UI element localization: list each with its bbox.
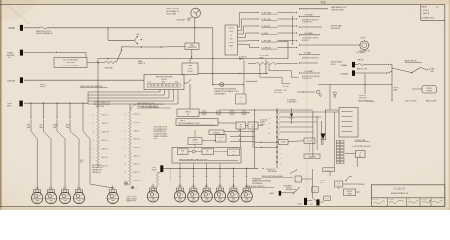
svg-text:TIME: TIME — [178, 198, 181, 200]
svg-text:CLOCK TIME UNIT ON: CLOCK TIME UNIT ON — [154, 127, 168, 129]
svg-text:CLOCK: CLOCK — [187, 71, 192, 73]
svg-text:V24GM: V24GM — [7, 81, 15, 83]
svg-text:TIM: TIM — [129, 183, 131, 185]
svg-text:4 SEC: 4 SEC — [325, 198, 328, 200]
svg-text:SET HI: SET HI — [320, 182, 325, 184]
svg-text:CLOCK: CLOCK — [307, 141, 312, 143]
svg-text:CLK 2: CLK 2 — [63, 202, 67, 204]
svg-text:23.4 %: 23.4 % — [134, 164, 140, 166]
svg-text:MTR D: MTR D — [361, 37, 367, 39]
svg-text:CLOCK: CLOCK — [161, 79, 167, 81]
svg-text:CLK 2: CLK 2 — [49, 202, 53, 204]
svg-text:TIME: TIME — [53, 127, 56, 129]
svg-text:GRN: GRN — [268, 132, 271, 134]
svg-text:76.1 %: 76.1 % — [102, 123, 108, 125]
svg-text:METTH DEGRADE CLOCK: METTH DEGRADE CLOCK — [179, 122, 201, 125]
svg-text:PAGE: PAGE — [422, 5, 428, 8]
svg-text:4: 4 — [93, 123, 94, 125]
svg-text:SPACECRAFT 20: SPACECRAFT 20 — [391, 192, 409, 195]
svg-text:CLOCK LIGHT: CLOCK LIGHT — [260, 55, 270, 57]
svg-text:CLOCKS SHUT C THE OTC: CLOCKS SHUT C THE OTC — [302, 38, 319, 40]
svg-text:LIGHTING BOLT C TIME LIKE: LIGHTING BOLT C TIME LIKE — [302, 76, 320, 78]
svg-text:CLK: CLK — [207, 153, 210, 155]
svg-text:EVERY POINT: EVERY POINT — [127, 201, 136, 203]
svg-text:TIME: TIME — [151, 198, 154, 200]
svg-text:GRN: GRN — [238, 130, 241, 132]
svg-text:CLK 2: CLK 2 — [77, 202, 81, 204]
svg-text:64.3 %: 64.3 % — [134, 139, 140, 141]
svg-text:ELEC TIME: ELEC TIME — [167, 14, 177, 16]
svg-text:TIME SET: TIME SET — [39, 84, 46, 86]
svg-text:4: 4 — [125, 155, 126, 157]
svg-text:P (FWD): P (FWD) — [238, 97, 243, 99]
svg-text:24.7 %: 24.7 % — [102, 165, 108, 167]
svg-text:TIME: TIME — [205, 198, 208, 200]
svg-text:CLK 2: CLK 2 — [205, 201, 209, 203]
svg-text:V(S)GM: V(S)GM — [340, 74, 348, 76]
svg-text:TIME SER: TIME SER — [357, 60, 363, 62]
svg-text:GRN: GRN — [238, 140, 241, 142]
svg-text:TIME: TIME — [218, 198, 221, 200]
svg-text:CLOCK TIM: CLOCK TIM — [260, 119, 268, 121]
svg-text:TIME ZONE: TIME ZONE — [105, 67, 113, 69]
svg-text:REV A: REV A — [423, 12, 430, 15]
svg-text:THE ODD WILL: THE ODD WILL — [127, 196, 137, 198]
svg-text:63.4 %: 63.4 % — [134, 155, 140, 157]
svg-text:TIME/BODY IN: TIME/BODY IN — [92, 170, 102, 172]
svg-text:67.0 %: 67.0 % — [134, 122, 140, 124]
svg-text:4: 4 — [93, 157, 94, 159]
svg-text:FOR: FOR — [230, 38, 233, 40]
svg-text:TIME: TIME — [35, 200, 38, 202]
svg-text:RED: RED — [268, 122, 271, 124]
svg-text:FUS: FUS — [135, 187, 138, 189]
svg-text:TIME: TIME — [192, 198, 195, 200]
svg-text:V24B: V24B — [7, 52, 13, 54]
svg-text:MOMENT OF RESET BY: MOMENT OF RESET BY — [154, 136, 169, 138]
svg-text:8:04 GMT: 8:04 GMT — [177, 19, 186, 21]
svg-text:4: 4 — [93, 131, 94, 133]
svg-text:4: 4 — [93, 114, 94, 116]
svg-text:4: 4 — [125, 172, 126, 174]
svg-text:MIN: MIN — [314, 191, 316, 193]
svg-text:TIME: TIME — [77, 200, 80, 202]
svg-text:V24GT: V24GT — [297, 204, 301, 206]
svg-text:CLK 2: CLK 2 — [245, 201, 249, 203]
svg-text:MONITOR: MONITOR — [213, 132, 220, 134]
svg-text:RETRO: RETRO — [394, 87, 399, 89]
svg-text:TIME: TIME — [63, 200, 66, 202]
svg-text:T+10 SEC: T+10 SEC — [282, 86, 290, 88]
svg-text:GRN: GRN — [268, 117, 271, 119]
svg-text:WORTH: WORTH — [426, 91, 431, 93]
svg-text:WILL RUN IF TWO CLOCK: WILL RUN IF TWO CLOCK — [94, 104, 110, 106]
svg-text:TIM: TIM — [80, 162, 82, 164]
svg-text:4: 4 — [93, 148, 94, 150]
svg-text:TIME: TIME — [111, 200, 114, 202]
svg-text:LOGIC: LOGIC — [229, 31, 233, 33]
svg-text:CHOOSER: CHOOSER — [192, 142, 198, 144]
svg-text:CLOCK: CLOCK — [219, 140, 223, 142]
svg-text:DIST: DIST — [188, 68, 192, 70]
svg-text:TIME: TIME — [39, 127, 42, 129]
svg-text:TIME: TIME — [245, 198, 248, 200]
svg-text:CHECKED: CHECKED — [389, 199, 395, 201]
svg-text:MTR D: MTR D — [185, 111, 191, 113]
svg-text:CLK 2: CLK 2 — [191, 201, 195, 203]
svg-text:4: 4 — [125, 130, 126, 132]
svg-text:RUN: RUN — [181, 150, 184, 152]
svg-text:TIM: TIM — [182, 153, 184, 155]
svg-text:63.1 %: 63.1 % — [134, 172, 140, 174]
svg-text:CLK 2: CLK 2 — [35, 202, 39, 204]
svg-text:FCH-1: FCH-1 — [423, 10, 430, 12]
svg-text:TIME: TIME — [66, 127, 69, 129]
svg-text:21.1 %: 21.1 % — [134, 180, 140, 182]
svg-text:4: 4 — [125, 147, 126, 149]
svg-text:TIME: TIME — [239, 124, 242, 126]
svg-text:TIME: TIME — [49, 200, 52, 202]
svg-text:PULSE: PULSE — [152, 170, 157, 172]
svg-text:GMT CLOCK: GMT CLOCK — [167, 8, 180, 10]
svg-text:THE TIME CHOOSER: THE TIME CHOOSER — [156, 76, 174, 78]
svg-text:RETRO: RETRO — [427, 88, 433, 90]
svg-text:63.4 %: 63.4 % — [102, 140, 108, 142]
svg-text:THE OTC: THE OTC — [320, 179, 326, 181]
svg-text:YEL: YEL — [238, 135, 241, 137]
svg-text:RECOIL RLY: RECOIL RLY — [359, 97, 367, 99]
svg-text:CLK 2: CLK 2 — [111, 202, 115, 204]
svg-text:TIME: TIME — [232, 198, 235, 200]
svg-text:159.5 %: 159.5 % — [102, 131, 110, 133]
svg-text:ACCURATE TO: ACCURATE TO — [167, 10, 180, 13]
svg-text:RUN: RUN — [252, 124, 255, 126]
svg-text:75.1 %: 75.1 % — [102, 114, 108, 116]
svg-text:V24AD: V24AD — [340, 64, 347, 67]
svg-text:DELIVERED: DELIVERED — [331, 28, 341, 30]
svg-text:GRN: GRN — [280, 157, 283, 159]
svg-text:LBS: LBS — [39, 124, 42, 126]
svg-text:RESET: RESET — [154, 138, 159, 140]
svg-text:SELECT: SELECT — [40, 86, 46, 88]
svg-text:ZERO: ZERO — [337, 185, 340, 187]
svg-text:RETRO: RETRO — [347, 191, 352, 193]
svg-text:TIME: TIME — [337, 183, 340, 185]
svg-text:HOME: HOME — [53, 124, 57, 126]
svg-text:67.5 %: 67.5 % — [134, 114, 140, 116]
svg-text:CLK 2: CLK 2 — [218, 201, 222, 203]
svg-text:SATELLITE CLOCK: SATELLITE CLOCK — [36, 30, 52, 33]
svg-text:FIME TIL: FIME TIL — [180, 120, 186, 122]
svg-text:CLK 2: CLK 2 — [232, 201, 236, 203]
svg-text:4: 4 — [125, 114, 126, 116]
svg-text:4: 4 — [125, 139, 126, 141]
svg-text:CLOCK: CLOCK — [394, 186, 406, 190]
svg-text:TIME ZERO: TIME ZERO — [358, 184, 365, 186]
svg-text:ON TO B DN: ON TO B DN — [274, 92, 282, 94]
svg-text:VC2: VC2 — [310, 204, 313, 206]
svg-text:NOTE: NOTE — [80, 160, 84, 162]
svg-text:TIME ZERO C: TIME ZERO C — [284, 185, 293, 187]
svg-text:65.3 %: 65.3 % — [102, 157, 108, 159]
svg-text:SET: SET — [206, 150, 209, 152]
svg-text:YEL: YEL — [268, 127, 271, 129]
svg-text:V3C: V3C — [7, 103, 12, 105]
svg-text:TIME: TIME — [27, 127, 30, 129]
svg-text:CLK 2: CLK 2 — [151, 201, 155, 203]
svg-text:65.3 %: 65.3 % — [134, 147, 140, 149]
svg-text:HR: HR — [314, 189, 316, 191]
svg-text:V24W: V24W — [8, 27, 15, 30]
svg-text:4 SEC: 4 SEC — [152, 167, 156, 169]
svg-text:OUT: OUT — [239, 127, 242, 129]
svg-text:4: 4 — [125, 164, 126, 166]
svg-text:43.4 %: 43.4 % — [102, 148, 108, 150]
svg-text:RED: RED — [280, 162, 283, 164]
svg-text:CHOOSER: CHOOSER — [66, 62, 75, 64]
svg-text:RETRO RLY: RETRO RLY — [325, 170, 332, 172]
svg-text:CLK 2: CLK 2 — [178, 201, 182, 203]
svg-text:4: 4 — [93, 140, 94, 142]
svg-text:TIME: TIME — [190, 45, 194, 47]
svg-text:(HRS): (HRS) — [7, 106, 11, 108]
svg-text:CLOCK: CLOCK — [229, 28, 234, 30]
svg-text:WHOLE HRS IN: WHOLE HRS IN — [92, 167, 103, 169]
svg-text:SET: SET — [252, 127, 255, 129]
svg-text:750 %: 750 % — [134, 130, 140, 132]
svg-text:SPRING: SPRING — [229, 42, 234, 44]
svg-text:GMT: GMT — [27, 124, 30, 126]
svg-text:PIR RETRO: PIR RETRO — [359, 95, 366, 97]
svg-text:16 MAR 1963: 16 MAR 1963 — [422, 17, 435, 20]
svg-text:4: 4 — [125, 122, 126, 124]
svg-text:1 800 KOL TO: 1 800 KOL TO — [266, 169, 276, 171]
svg-text:JL 101: JL 101 — [321, 2, 327, 4]
svg-text:CLK 2: CLK 2 — [232, 153, 236, 155]
